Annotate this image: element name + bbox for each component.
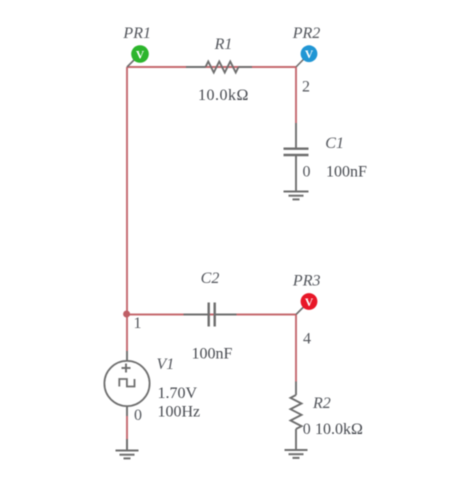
square wave glyph inside V1 xyxy=(119,379,134,387)
svg-text:V: V xyxy=(136,49,145,61)
probe PR3 xyxy=(296,293,317,314)
node 1 junction dot xyxy=(123,311,130,318)
svg-text:2: 2 xyxy=(302,79,310,96)
svg-text:PR1: PR1 xyxy=(122,25,151,42)
svg-text:10.0kΩ: 10.0kΩ xyxy=(198,87,249,104)
svg-text:C2: C2 xyxy=(201,270,220,287)
wire: V1 bottom to ground xyxy=(126,416,128,439)
wire: left vertical from top corner down to V1 xyxy=(126,67,128,351)
capacitor C1 xyxy=(284,123,309,191)
probe PR2 xyxy=(296,45,317,67)
capacitor C2 xyxy=(184,303,237,327)
resistor R2 xyxy=(291,382,302,451)
ground below R2 xyxy=(285,450,308,458)
svg-text:100nF: 100nF xyxy=(326,164,367,181)
svg-text:PR2: PR2 xyxy=(292,25,321,42)
svg-text:10.0kΩ: 10.0kΩ xyxy=(315,421,363,438)
wire: bottom horizontal from node 1 to PR3 corner xyxy=(127,314,296,316)
wire: right vertical from PR2 corner down to C1 xyxy=(295,67,297,123)
svg-text:C1: C1 xyxy=(325,135,344,152)
svg-text:0: 0 xyxy=(303,164,311,181)
svg-text:V: V xyxy=(305,297,314,309)
resistor R1 xyxy=(186,62,252,73)
wire: right vertical from PR3 corner down to R2 xyxy=(295,315,297,382)
svg-text:100nF: 100nF xyxy=(192,346,233,363)
svg-text:0: 0 xyxy=(303,421,311,438)
svg-text:V: V xyxy=(305,49,314,61)
svg-text:100Hz: 100Hz xyxy=(158,404,201,421)
plus sign inside V1 xyxy=(122,364,131,373)
svg-text:1: 1 xyxy=(134,315,142,332)
ground below V1 xyxy=(116,439,139,458)
svg-text:R1: R1 xyxy=(214,36,233,53)
svg-text:PR3: PR3 xyxy=(292,273,321,290)
svg-text:1.70V: 1.70V xyxy=(158,385,198,402)
svg-text:R2: R2 xyxy=(312,395,331,412)
svg-text:4: 4 xyxy=(303,331,311,348)
voltage source V1 xyxy=(104,351,149,416)
probe PR1 xyxy=(127,45,149,67)
svg-text:V1: V1 xyxy=(157,356,175,373)
wire: top horizontal from node PR1 corner to PR2 corner xyxy=(127,66,296,68)
svg-text:0: 0 xyxy=(134,407,142,424)
ground below C1 xyxy=(284,192,309,200)
